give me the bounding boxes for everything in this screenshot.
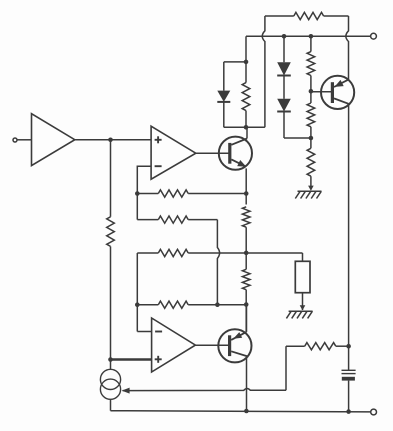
- wire: [245, 36, 247, 62]
- transistor Q3: [321, 76, 354, 109]
- wire: [246, 305, 248, 332]
- diode D1: [217, 62, 230, 127]
- wire: [195, 344, 229, 346]
- wire: [111, 358, 153, 361]
- wire: [110, 246, 112, 369]
- junction: [244, 302, 249, 307]
- node junction: [135, 191, 140, 196]
- wire: [246, 357, 248, 411]
- U2 plus label: [155, 136, 162, 143]
- U2 minus label: [155, 165, 162, 167]
- wire: [17, 139, 32, 141]
- junction: [135, 302, 140, 307]
- op-amp U3: [152, 318, 196, 372]
- resistor R5: [286, 343, 349, 350]
- wire: [245, 290, 247, 332]
- junction: [244, 125, 249, 130]
- junction: [309, 34, 314, 39]
- wire: [285, 346, 287, 390]
- wire: [246, 127, 248, 138]
- diode D2: [277, 36, 291, 75]
- junction: [244, 60, 249, 65]
- input terminal J1: [13, 138, 17, 142]
- junction: [346, 409, 351, 414]
- resistor R6 (box): [295, 261, 310, 292]
- resistor R4: [137, 301, 246, 308]
- resistor R13: [307, 91, 315, 138]
- wire: [311, 91, 331, 93]
- resistor R10: [242, 62, 250, 127]
- wire: [75, 139, 151, 141]
- wire: [123, 388, 286, 390]
- resistor R8: [242, 207, 250, 227]
- wire: [302, 293, 304, 310]
- node B junction: [108, 357, 113, 362]
- wire: [302, 253, 304, 261]
- U3 minus label: [155, 331, 162, 333]
- resistor R9: [242, 269, 250, 289]
- diode D3: [277, 76, 291, 139]
- wire: [196, 152, 229, 154]
- resistor R7: [107, 217, 115, 247]
- transistor Q2: [218, 329, 251, 362]
- junction: [346, 344, 351, 349]
- wire: [224, 126, 265, 128]
- wire: [262, 16, 265, 127]
- resistor R1: [137, 190, 246, 197]
- junction: [282, 34, 287, 39]
- resistor R11: [265, 12, 349, 19]
- wire: [245, 168, 247, 204]
- transistor Q1: [219, 137, 252, 170]
- resistor R12: [307, 36, 315, 91]
- node A junction: [108, 138, 113, 143]
- wire: [348, 104, 350, 370]
- ground G2: [286, 305, 312, 318]
- wire: [245, 227, 247, 269]
- wire: [137, 331, 151, 333]
- resistor R2: [137, 216, 217, 223]
- resistor R14: [307, 138, 315, 190]
- buffer amp U1: [32, 114, 75, 166]
- output terminal J2: [371, 33, 377, 39]
- current source I1: [100, 369, 120, 399]
- wire: [224, 61, 246, 63]
- junction: [244, 191, 249, 196]
- wire: [110, 140, 112, 217]
- capacitor C1: [342, 370, 356, 411]
- wire: [137, 166, 151, 219]
- junction: [215, 302, 220, 307]
- output terminal J3: [371, 409, 377, 415]
- ground G1: [295, 186, 321, 199]
- op-amp U2: [151, 126, 196, 179]
- wire: [136, 253, 138, 332]
- resistor R3: [137, 249, 302, 256]
- wire: [346, 16, 349, 80]
- U3 plus label: [155, 356, 162, 363]
- wire: [111, 411, 371, 412]
- arrow into I1: [122, 388, 130, 394]
- junction: [309, 136, 314, 141]
- wire: [246, 35, 371, 37]
- wire: [284, 137, 311, 139]
- wire: [217, 220, 219, 305]
- wire: [110, 399, 112, 410]
- junction: [244, 251, 249, 256]
- junction: [244, 409, 249, 414]
- junction: [309, 89, 314, 94]
